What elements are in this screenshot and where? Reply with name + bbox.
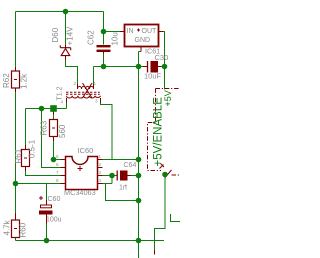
svg-text:IN: IN xyxy=(127,28,134,35)
svg-text:C62: C62 xyxy=(87,30,96,45)
svg-text:T1.2: T1.2 xyxy=(57,86,64,100)
svg-text:+: + xyxy=(125,183,128,189)
svg-text:8: 8 xyxy=(56,178,59,183)
svg-text:100u: 100u xyxy=(46,217,62,224)
svg-text:3: 3 xyxy=(95,99,98,104)
svg-text:0.5-1: 0.5-1 xyxy=(28,139,37,158)
svg-text:C60: C60 xyxy=(48,196,61,203)
svg-text:10u: 10u xyxy=(111,32,120,45)
svg-text:2: 2 xyxy=(99,162,102,167)
svg-text:C64: C64 xyxy=(124,162,137,169)
svg-text:MC34063: MC34063 xyxy=(64,188,96,197)
svg-text:4: 4 xyxy=(99,178,102,183)
svg-text:C30: C30 xyxy=(155,53,169,62)
svg-text:560: 560 xyxy=(58,124,67,138)
svg-text:+5V: +5V xyxy=(163,90,173,106)
svg-text:5: 5 xyxy=(56,154,59,159)
svg-text:D60: D60 xyxy=(51,27,60,42)
svg-text:+5V/ENABLE: +5V/ENABLE xyxy=(153,97,165,167)
svg-text:R61: R61 xyxy=(14,148,23,163)
svg-text:1.2k: 1.2k xyxy=(20,73,29,89)
svg-text:R62: R62 xyxy=(2,73,11,88)
svg-text:IC60: IC60 xyxy=(78,146,94,155)
svg-text:GND: GND xyxy=(135,37,151,44)
svg-text:R63: R63 xyxy=(40,120,49,135)
svg-text:6: 6 xyxy=(56,162,59,167)
svg-text:R60: R60 xyxy=(19,222,28,237)
svg-text:4.7k: 4.7k xyxy=(3,219,12,235)
svg-text:10uF: 10uF xyxy=(144,72,162,81)
svg-text:7: 7 xyxy=(56,170,59,175)
svg-text:+14V: +14V xyxy=(66,26,75,46)
svg-text:1: 1 xyxy=(94,81,97,86)
svg-text:3: 3 xyxy=(99,170,102,175)
svg-text:2: 2 xyxy=(74,81,77,86)
svg-text:1: 1 xyxy=(99,154,102,159)
svg-text:OUT: OUT xyxy=(142,28,158,35)
